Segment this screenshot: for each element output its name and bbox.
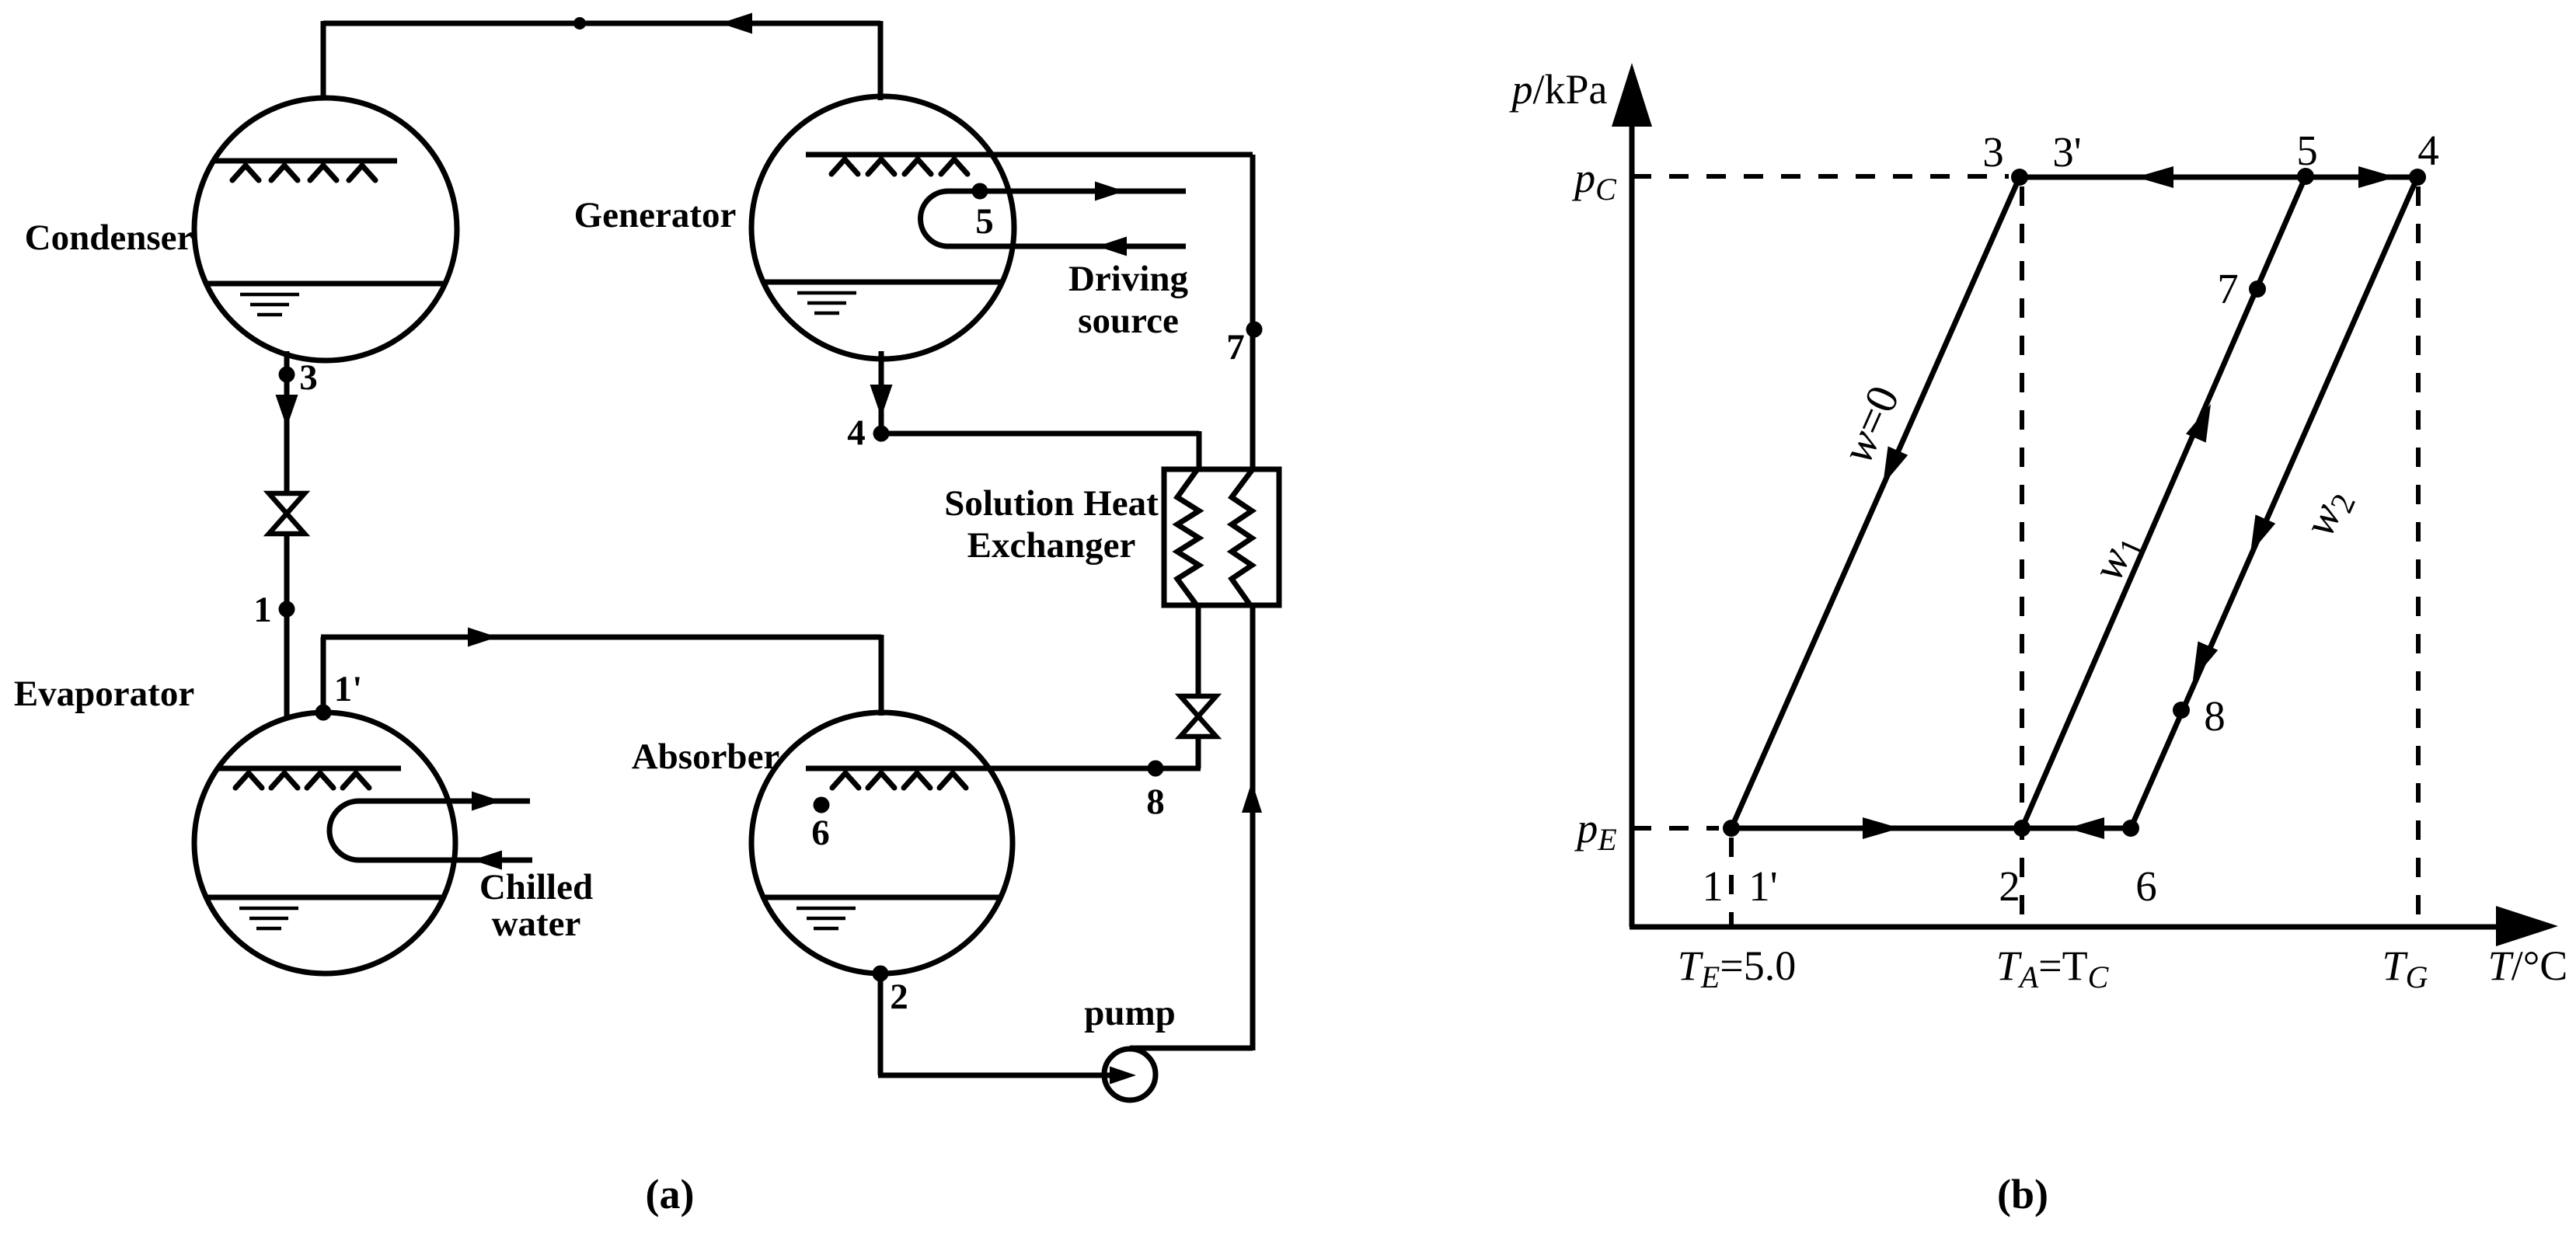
svg-text:pump: pump <box>1084 993 1176 1033</box>
dashed vertical at TA=TC <box>2020 186 2024 927</box>
SHX left coil <box>1177 469 1199 605</box>
svg-text:4: 4 <box>2417 127 2439 174</box>
svg-text:1: 1 <box>1702 862 1724 910</box>
label w1 <box>2082 525 2152 590</box>
y axis arrowhead <box>1612 63 1652 127</box>
dashed vertical at TE <box>1729 838 1734 927</box>
svg-text:5: 5 <box>2296 127 2318 174</box>
svg-text:(a): (a) <box>646 1171 695 1217</box>
point 6 <box>2122 820 2139 837</box>
wire pump outlet riser to generator spray header <box>1130 1046 1253 1051</box>
arrow on w2 toward 6 (lower) <box>2193 641 2218 680</box>
line 2 to 5 (w1) <box>2022 176 2306 828</box>
svg-text:Chilled: Chilled <box>479 867 593 907</box>
generator vessel <box>751 96 1014 359</box>
chilled water coil <box>329 801 532 860</box>
node 1 <box>279 601 295 618</box>
arrow 1 to 2 <box>1863 817 1900 839</box>
node 7 <box>1246 322 1263 338</box>
flow arrow on top wire (left) <box>720 13 752 34</box>
svg-text:source: source <box>1078 301 1179 341</box>
svg-text:p/kPa: p/kPa <box>1508 66 1607 113</box>
svg-text:T/°C: T/°C <box>2488 942 2568 989</box>
evaporator vessel <box>194 712 455 974</box>
flow arrow up riser <box>1242 782 1262 813</box>
node 1' <box>315 705 332 721</box>
wire absorber bottom to pump <box>878 974 884 1075</box>
arrow on w2 toward 6 (upper) <box>2250 514 2275 553</box>
svg-text:Absorber: Absorber <box>632 737 780 777</box>
dashed vertical at TG <box>2416 186 2421 927</box>
svg-text:Evaporator: Evaporator <box>14 674 194 714</box>
wire evaporator 1' to absorber top <box>321 637 326 712</box>
absorber vessel <box>751 712 1013 974</box>
junction dot on top wire <box>573 17 586 30</box>
pump P1 <box>1104 1049 1156 1100</box>
dashed line pE <box>1632 826 1719 831</box>
arrow 5 to 4 <box>2358 166 2396 188</box>
line 3 to 4 <box>2020 175 2417 180</box>
svg-text:1: 1 <box>253 590 272 630</box>
driving source coil <box>921 191 1186 246</box>
svg-text:8: 8 <box>1146 782 1165 822</box>
arrow on w1 toward 5 <box>2186 404 2211 443</box>
svg-text:Solution Heat: Solution Heat <box>944 483 1159 524</box>
flow arrow down to valve <box>276 395 298 427</box>
svg-text:TE=5.0: TE=5.0 <box>1678 942 1796 994</box>
label w2 <box>2293 481 2363 546</box>
point 3 <box>2011 169 2028 186</box>
wire condenser bottom to evaporator top <box>284 351 290 719</box>
point 4 <box>2409 169 2426 186</box>
node 8 <box>1148 761 1164 777</box>
svg-text:Condenser: Condenser <box>25 218 193 258</box>
chilled water in arrow <box>472 851 502 870</box>
node 6 <box>814 797 830 813</box>
chilled water out arrow <box>472 792 501 811</box>
svg-text:6: 6 <box>2135 862 2157 910</box>
point 7 <box>2249 280 2266 298</box>
arrow 6 to 2 <box>2067 817 2104 839</box>
svg-text:Generator: Generator <box>574 195 737 235</box>
wire SHX to valve V2 to node 8 <box>1196 605 1201 768</box>
y axis (p/kPa) <box>1630 78 1635 927</box>
driving source out arrow <box>1097 237 1127 256</box>
svg-text:(b): (b) <box>1997 1171 2048 1217</box>
point 8 <box>2173 702 2190 719</box>
point 5 <box>2297 168 2314 185</box>
svg-text:2: 2 <box>1999 862 2020 910</box>
svg-text:7: 7 <box>1226 327 1245 367</box>
line 1 to 3 (w=0) <box>1731 177 2020 828</box>
node 3 <box>279 367 295 383</box>
line 6 to 4 (w2) <box>2131 177 2417 828</box>
expansion valve V1 <box>269 493 305 534</box>
solution heat exchanger box <box>1164 469 1279 605</box>
svg-text:1': 1' <box>1748 862 1777 910</box>
svg-text:5: 5 <box>975 201 994 242</box>
dashed line pC <box>1632 174 2009 179</box>
line 1 to 2 to 6 <box>1731 826 2131 831</box>
condenser vessel <box>194 98 457 360</box>
svg-text:Exchanger: Exchanger <box>967 525 1136 566</box>
node 4 <box>873 426 890 442</box>
x axis (T) <box>1630 925 2518 930</box>
svg-text:1': 1' <box>334 669 363 709</box>
svg-text:3: 3 <box>1982 128 2004 176</box>
svg-text:7: 7 <box>2217 265 2239 312</box>
wire generator top to condenser top <box>323 21 880 26</box>
svg-text:water: water <box>492 904 581 944</box>
x axis arrowhead <box>2496 906 2558 946</box>
node 2 <box>873 966 889 982</box>
wire generator bottom to heat exchanger <box>879 351 884 434</box>
flow arrow generator outlet <box>870 385 893 417</box>
svg-text:4: 4 <box>847 413 866 453</box>
arrow 5 to 3' <box>2136 166 2173 188</box>
svg-text:8: 8 <box>2204 692 2226 740</box>
driving source in arrow <box>1095 182 1124 201</box>
arrow on w=0 toward 1 <box>1883 446 1908 485</box>
label w=0 <box>1832 378 1909 470</box>
SHX right coil <box>1232 469 1253 605</box>
point 2 <box>2013 820 2030 837</box>
node 5 <box>972 183 988 200</box>
expansion valve V2 <box>1180 696 1216 737</box>
svg-text:Driving: Driving <box>1068 259 1189 299</box>
point 1 <box>1723 820 1740 837</box>
svg-text:2: 2 <box>890 977 908 1017</box>
pump inlet arrow <box>1110 1067 1136 1085</box>
svg-text:3: 3 <box>299 357 318 398</box>
flow arrow to absorber <box>468 628 497 647</box>
svg-text:3': 3' <box>2052 128 2081 176</box>
svg-text:6: 6 <box>811 813 830 853</box>
